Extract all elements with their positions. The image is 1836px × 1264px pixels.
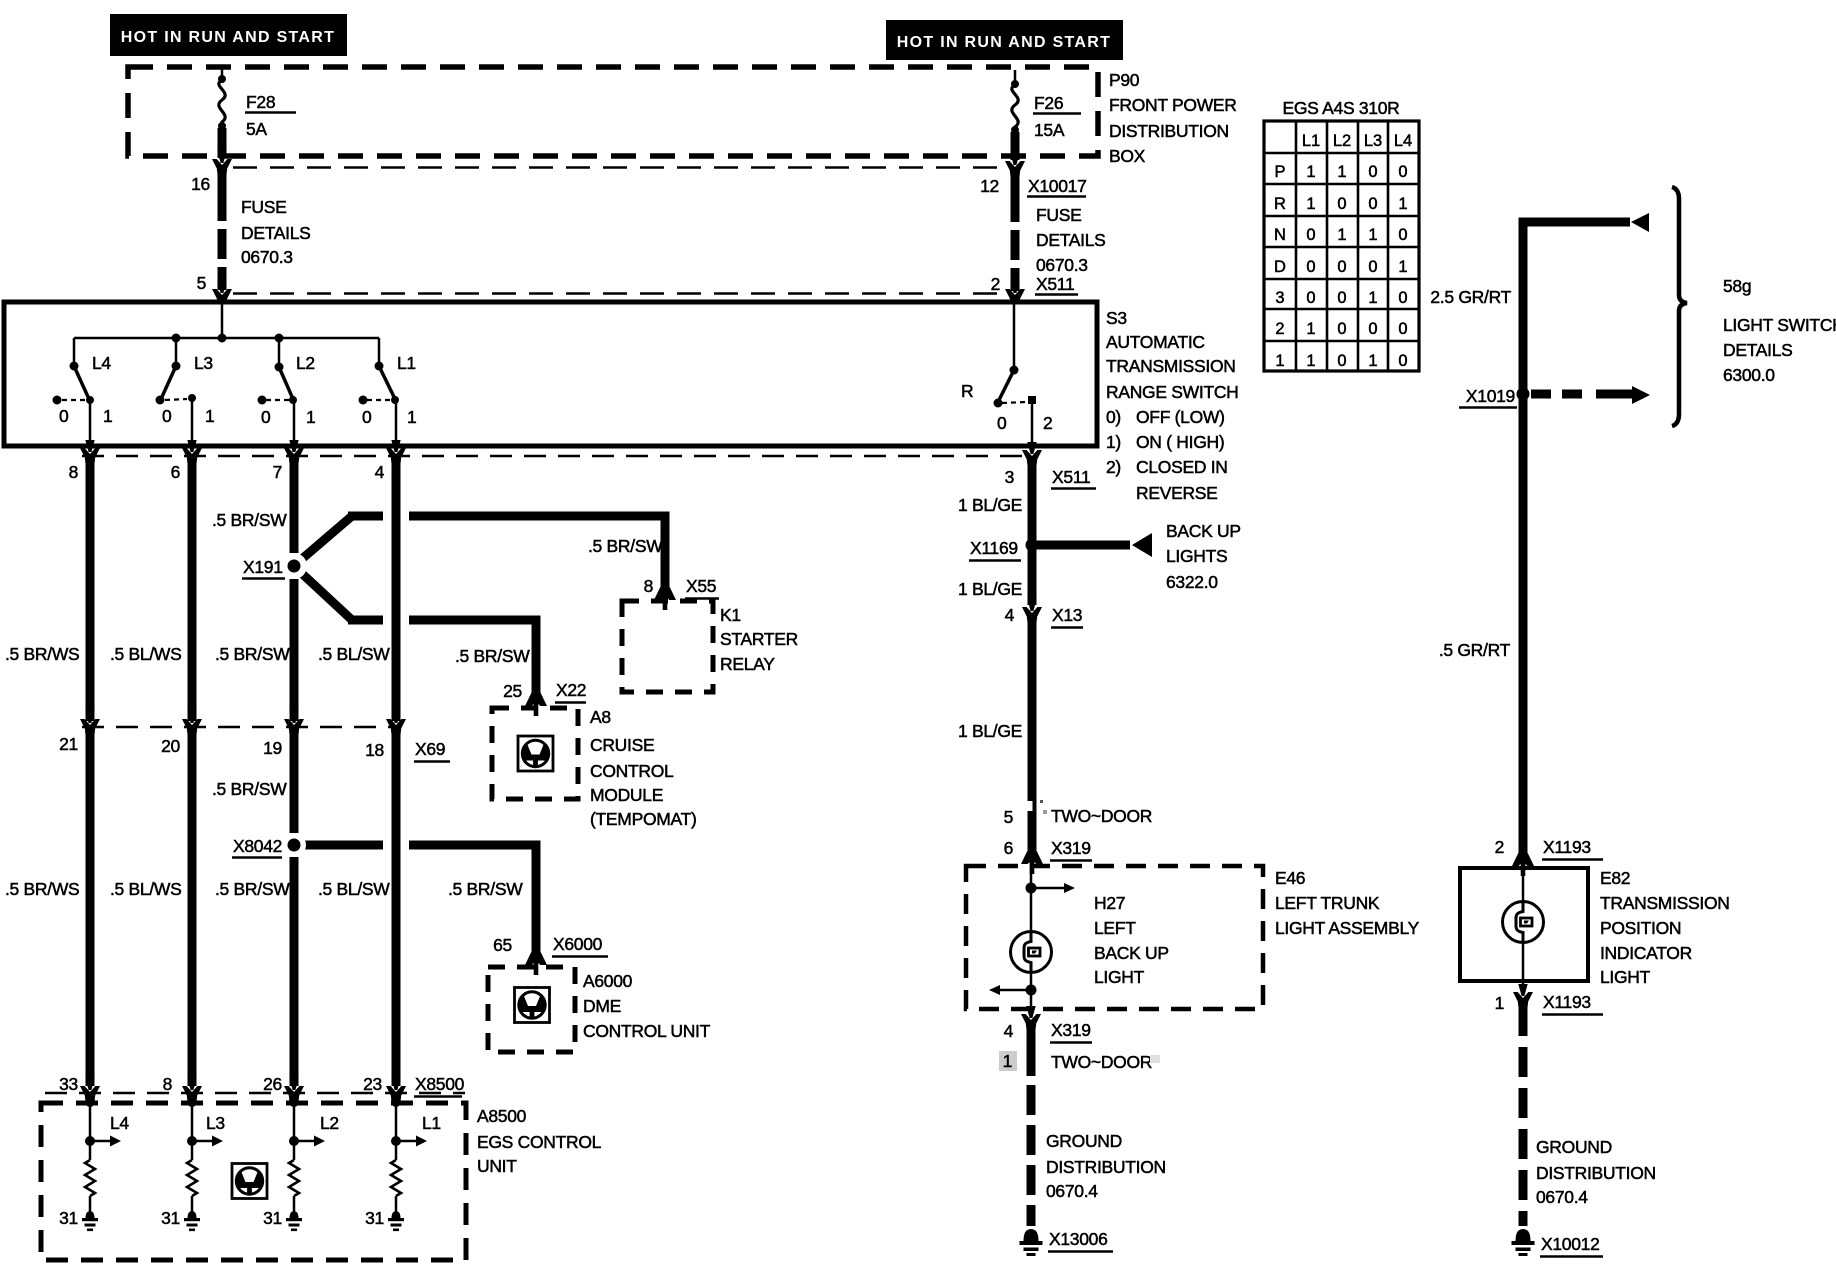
node X55: [685, 576, 719, 599]
fuse F26 15A: [1011, 70, 1019, 160]
svg-text:.5 BR/SW: .5 BR/SW: [455, 646, 530, 666]
table row 1: [1275, 352, 1407, 370]
svg-text:1 BL/GE: 1 BL/GE: [958, 495, 1022, 515]
bus wire inside S3: [74, 337, 379, 340]
svg-text:0670.3: 0670.3: [241, 247, 293, 267]
node label X8042: [232, 836, 282, 858]
svg-text:LIGHTS: LIGHTS: [1166, 546, 1227, 566]
svg-text:0): 0): [1106, 407, 1121, 427]
E46 labels: [1275, 868, 1420, 938]
svg-text:20: 20: [161, 736, 180, 756]
connector X13 pin 4: [1022, 599, 1042, 622]
svg-text:6: 6: [1004, 838, 1013, 858]
splice node X1169: [1026, 539, 1039, 552]
svg-text:0670.4: 0670.4: [1046, 1181, 1098, 1201]
connector X8500 pin 23: [386, 1078, 406, 1101]
svg-text:1: 1: [1398, 258, 1407, 276]
svg-text:0: 0: [1398, 352, 1407, 370]
wire branch X191 to X22 (lower): [296, 568, 536, 694]
svg-text:P: P: [1274, 163, 1285, 181]
svg-text:FUSE: FUSE: [241, 197, 286, 217]
P90 labels: [1109, 70, 1237, 166]
svg-text:.5 BR/SW: .5 BR/SW: [212, 779, 287, 799]
svg-text:58g: 58g: [1723, 276, 1751, 296]
connector X511 pin 4: [386, 440, 406, 463]
svg-text:F28: F28: [246, 92, 275, 112]
connector X8500 pin 33: [80, 1078, 100, 1101]
svg-text:15A: 15A: [1034, 120, 1065, 140]
svg-text:18: 18: [365, 740, 384, 760]
svg-text:DISTRIBUTION: DISTRIBUTION: [1109, 121, 1229, 141]
table row R: [1274, 195, 1408, 213]
svg-text:X319: X319: [1051, 1020, 1091, 1040]
svg-text:0: 0: [59, 406, 69, 426]
node label X13006: [1048, 1229, 1113, 1252]
svg-text:L4: L4: [92, 353, 111, 373]
svg-text:.5 BR/WS: .5 BR/WS: [5, 879, 79, 899]
F28 value label: [245, 92, 296, 139]
S3 automatic transmission range switch box: [4, 302, 1097, 446]
node label X1019: [1459, 386, 1517, 408]
svg-text:0: 0: [1337, 320, 1346, 338]
wire L4 output (.5 BR/WS) upper: [86, 461, 95, 721]
svg-text:1: 1: [1306, 352, 1315, 370]
L2 switch labels: [261, 353, 315, 427]
node X6000: [552, 934, 608, 957]
svg-text:8: 8: [69, 462, 78, 482]
wire X319 to ground (solid then dashed): [1027, 1028, 1036, 1226]
L3 switch labels: [162, 353, 214, 426]
node X319 (top): [1050, 838, 1092, 861]
svg-text:0: 0: [162, 406, 172, 426]
svg-text:L3: L3: [206, 1113, 225, 1133]
node X13: [1051, 605, 1083, 628]
svg-text:1: 1: [1398, 195, 1407, 213]
svg-text:P90: P90: [1109, 70, 1140, 90]
svg-text:FRONT POWER: FRONT POWER: [1109, 95, 1237, 115]
node label X1169: [969, 538, 1021, 561]
relay K1 box (dashed): [622, 601, 713, 692]
svg-text:0: 0: [1368, 320, 1377, 338]
svg-text:1: 1: [1337, 226, 1346, 244]
svg-text:RELAY: RELAY: [720, 654, 775, 674]
svg-text:X511: X511: [1052, 467, 1090, 487]
E82 labels: [1600, 868, 1730, 987]
switch L2: [258, 338, 298, 446]
svg-text:12: 12: [980, 176, 999, 196]
svg-text:X55: X55: [686, 576, 716, 596]
connector X69 pin 21: [80, 711, 100, 734]
svg-text:POSITION: POSITION: [1600, 918, 1681, 938]
connector X69 pin 18: [386, 711, 406, 734]
svg-text:L2: L2: [1333, 132, 1351, 150]
A8 labels: [590, 707, 697, 829]
svg-text:AUTOMATIC: AUTOMATIC: [1106, 332, 1205, 352]
connector X8500 pin 8: [182, 1078, 202, 1101]
F26 value label: [1033, 93, 1081, 140]
svg-text:4: 4: [1005, 605, 1015, 625]
wire branch X8042 to X6000: [300, 845, 536, 953]
wire (thick dashed) fuse F26 to S3: [1011, 174, 1020, 291]
svg-text:L1: L1: [397, 353, 416, 373]
svg-text:DISTRIBUTION: DISTRIBUTION: [1536, 1163, 1656, 1183]
svg-text:CONTROL UNIT: CONTROL UNIT: [583, 1021, 711, 1041]
splice node X8042: [282, 833, 306, 857]
junction dots on bus: [172, 334, 284, 343]
connector X55 pin 8: [654, 587, 676, 610]
svg-text:HOT IN RUN AND START: HOT IN RUN AND START: [121, 29, 335, 46]
svg-text:1): 1): [1106, 432, 1121, 452]
svg-text:31: 31: [263, 1208, 282, 1228]
wire feed into S3: [221, 302, 224, 338]
svg-text:1: 1: [407, 407, 416, 427]
svg-text:X511: X511: [1036, 274, 1074, 294]
svg-text:2: 2: [1495, 837, 1504, 857]
brace bracket light switch details: [1672, 187, 1687, 426]
svg-text:23: 23: [363, 1074, 382, 1094]
wire branch X191 to X55 (upper): [296, 516, 665, 588]
svg-text:1: 1: [1337, 163, 1346, 181]
svg-text:0: 0: [1306, 226, 1315, 244]
svg-text:1: 1: [1306, 163, 1315, 181]
svg-text:UNIT: UNIT: [477, 1156, 517, 1176]
svg-text:19: 19: [263, 738, 282, 758]
light switch details note: [1723, 276, 1836, 385]
svg-text:1: 1: [1368, 289, 1377, 307]
svg-text:X8042: X8042: [233, 836, 282, 856]
connector X319 pin 6: [1021, 851, 1043, 874]
L4 switch labels: [59, 353, 112, 426]
H27 labels: [1094, 893, 1169, 987]
svg-text:TRANSMISSION: TRANSMISSION: [1600, 893, 1730, 913]
svg-text:6: 6: [171, 462, 180, 482]
junction with right arrow: [1026, 883, 1076, 894]
svg-text:STARTER: STARTER: [720, 629, 798, 649]
switch R: [994, 302, 1037, 446]
svg-text:4: 4: [1004, 1021, 1014, 1041]
svg-text:MODULE: MODULE: [590, 785, 663, 805]
svg-text:X1193: X1193: [1543, 837, 1591, 857]
svg-text:.5 BR/SW: .5 BR/SW: [448, 879, 523, 899]
svg-text:X10017: X10017: [1028, 176, 1087, 196]
pin label 1 and TWO~DOOR note (faded): [999, 1051, 1160, 1072]
svg-text:.5 BL/WS: .5 BL/WS: [110, 879, 182, 899]
svg-text:R: R: [961, 381, 973, 401]
A8 steering icon: [518, 736, 553, 771]
node X8500: [414, 1074, 465, 1097]
svg-text:HOT IN RUN AND START: HOT IN RUN AND START: [897, 34, 1111, 51]
connector X69 pin 19: [284, 711, 304, 734]
connector X8500 pin 26: [284, 1078, 304, 1101]
svg-text:.5 BL/SW: .5 BL/SW: [318, 644, 390, 664]
svg-text:0: 0: [1306, 258, 1315, 276]
svg-text:LEFT TRUNK: LEFT TRUNK: [1275, 893, 1380, 913]
svg-text:GROUND: GROUND: [1046, 1131, 1122, 1151]
svg-text:X13006: X13006: [1049, 1229, 1108, 1249]
connector line X69 (dashed): [82, 726, 400, 729]
EGS control unit A8500 box (dashed): [41, 1103, 466, 1260]
svg-text:EGS CONTROL: EGS CONTROL: [477, 1132, 602, 1152]
svg-text:2: 2: [1043, 413, 1052, 433]
table row 2: [1275, 320, 1407, 338]
wire R output (1 BL/GE): [1028, 463, 1037, 605]
svg-text:1: 1: [306, 407, 315, 427]
svg-text:L3: L3: [1364, 132, 1382, 150]
table header L1 L2 L3 L4: [1302, 132, 1412, 150]
svg-text:X319: X319: [1051, 838, 1091, 858]
K1 labels: [720, 605, 798, 674]
svg-text:1: 1: [1306, 320, 1315, 338]
wire below bulb: [1030, 972, 1033, 1010]
connector X22 pin 25: [525, 693, 547, 716]
svg-text:1: 1: [1368, 226, 1377, 244]
svg-text:31: 31: [161, 1208, 180, 1228]
svg-text:0670.3: 0670.3: [1036, 255, 1088, 275]
fuse F28 5A: [218, 67, 226, 158]
svg-text:OFF (LOW): OFF (LOW): [1136, 407, 1225, 427]
junction dots below X8500: [85, 1097, 401, 1107]
switch L1: [359, 338, 400, 446]
svg-text:LIGHT ASSEMBLY: LIGHT ASSEMBLY: [1275, 918, 1420, 938]
ground X10012: [1512, 1229, 1535, 1256]
svg-text:2): 2): [1106, 457, 1121, 477]
switch L3: [156, 338, 197, 446]
svg-text:L3: L3: [194, 353, 213, 373]
cruise control module A8 box (dashed): [492, 708, 578, 799]
svg-text:.5 BR/SW: .5 BR/SW: [212, 510, 287, 530]
svg-text:.5 BR/SW: .5 BR/SW: [215, 879, 290, 899]
svg-text:TWO~DOOR: TWO~DOOR: [1051, 1052, 1152, 1072]
wire through E82: [1522, 869, 1525, 989]
connector X511 pin 6: [182, 440, 202, 463]
svg-text:REVERSE: REVERSE: [1136, 483, 1218, 503]
svg-text:0: 0: [1368, 195, 1377, 213]
svg-text:0: 0: [362, 407, 372, 427]
node X22: [555, 680, 586, 703]
svg-text:BACK UP: BACK UP: [1166, 521, 1241, 541]
connector line X8500 (dashed): [45, 1092, 465, 1095]
dashed wire from X1019 with right arrow: [1531, 386, 1650, 404]
svg-text:L2: L2: [320, 1113, 339, 1133]
svg-text:8: 8: [644, 576, 653, 596]
svg-text:0: 0: [1337, 258, 1346, 276]
table row N: [1274, 226, 1408, 244]
A8500 labels: [477, 1106, 602, 1176]
svg-text:3: 3: [1275, 289, 1284, 307]
svg-text:0: 0: [1398, 163, 1407, 181]
svg-text:25: 25: [503, 681, 522, 701]
svg-text:26: 26: [263, 1074, 282, 1094]
EGS steering icon: [232, 1164, 267, 1199]
EGS channel L3: wire, resistor, ground 31: [184, 1103, 223, 1231]
svg-text:R: R: [1274, 195, 1286, 213]
wire L2 output (.5 BR/SW) upper: [290, 461, 299, 721]
E46 left trunk light assembly box (dashed): [966, 866, 1263, 1009]
svg-text:TRANSMISSION: TRANSMISSION: [1106, 356, 1236, 376]
svg-text:DISTRIBUTION: DISTRIBUTION: [1046, 1157, 1166, 1177]
wire L3 output (.5 BL/WS) upper: [188, 461, 197, 721]
table row D: [1274, 258, 1408, 276]
svg-text:CLOSED IN: CLOSED IN: [1136, 457, 1228, 477]
pin label 5 and TWO~DOOR note: [1004, 806, 1153, 827]
svg-text:N: N: [1274, 226, 1286, 244]
svg-text:1: 1: [1368, 352, 1377, 370]
table row P: [1274, 163, 1407, 181]
svg-text:A6000: A6000: [583, 971, 633, 991]
svg-text:ON ( HIGH): ON ( HIGH): [1136, 432, 1224, 452]
svg-text:2: 2: [991, 274, 1000, 294]
fuse details note (right): [1036, 205, 1106, 275]
connector X319 pin 4: [1021, 1006, 1041, 1029]
connector X10017 pin 12: [1005, 153, 1025, 176]
svg-text:1: 1: [1495, 993, 1504, 1013]
svg-text:.5 BR/WS: .5 BR/WS: [5, 644, 79, 664]
arrow to light switch (left-pointing): [1631, 213, 1649, 232]
svg-text:65: 65: [493, 935, 512, 955]
svg-text:GROUND: GROUND: [1536, 1137, 1612, 1157]
A6000 steering icon: [515, 988, 550, 1023]
svg-text:5A: 5A: [246, 119, 267, 139]
connector X511 pin 5: [212, 281, 232, 304]
svg-text:LIGHT SWITCH: LIGHT SWITCH: [1723, 315, 1836, 335]
svg-text:FUSE: FUSE: [1036, 205, 1081, 225]
svg-text:X6000: X6000: [553, 934, 603, 954]
wire L3 output lower (.5 BL/WS): [188, 733, 197, 1086]
node X319 (bottom): [1050, 1020, 1092, 1043]
svg-text:33: 33: [59, 1074, 78, 1094]
svg-text:1 BL/GE: 1 BL/GE: [958, 721, 1022, 741]
svg-text:0: 0: [1306, 289, 1315, 307]
svg-text:1 BL/GE: 1 BL/GE: [958, 579, 1022, 599]
svg-text:5: 5: [1004, 807, 1013, 827]
DME control unit A6000 box (dashed): [488, 967, 575, 1052]
node X511 (top): [1035, 274, 1078, 295]
svg-text:BACK UP: BACK UP: [1094, 943, 1169, 963]
svg-text:3: 3: [1005, 467, 1014, 487]
svg-text:E82: E82: [1600, 868, 1630, 888]
L1 switch labels: [362, 353, 416, 427]
node X1193 (top): [1542, 837, 1603, 860]
ground distribution note (left): [1046, 1131, 1166, 1201]
connector X1193 pin 2 (bell): [1512, 853, 1534, 876]
bulb H27 left back up light: [1011, 932, 1052, 973]
svg-text:CONTROL: CONTROL: [590, 761, 674, 781]
svg-text:21: 21: [59, 734, 78, 754]
connector X511 pin 2: [1005, 281, 1025, 304]
svg-text:1: 1: [1003, 1051, 1012, 1071]
svg-text:0: 0: [997, 413, 1007, 433]
svg-text:L4: L4: [1394, 132, 1412, 150]
node X69: [414, 739, 450, 762]
node label X10012: [1540, 1234, 1603, 1257]
svg-text:X8500: X8500: [415, 1074, 465, 1094]
splice node X1019: [1517, 388, 1530, 401]
svg-text:DETAILS: DETAILS: [241, 223, 311, 243]
svg-text:0: 0: [1337, 195, 1346, 213]
svg-text:1: 1: [1275, 352, 1284, 370]
svg-text:4: 4: [375, 462, 385, 482]
wire 2.5 GR/RT (light switch feed): [1523, 222, 1630, 394]
svg-text:.5 GR/RT: .5 GR/RT: [1439, 640, 1511, 660]
svg-text:0: 0: [1398, 320, 1407, 338]
svg-text:.5 BL/SW: .5 BL/SW: [318, 879, 390, 899]
wire L4 output lower (.5 BR/WS): [86, 733, 95, 1086]
back up lights note: [1166, 521, 1241, 592]
svg-text:DETAILS: DETAILS: [1036, 230, 1106, 250]
svg-text:BOX: BOX: [1109, 146, 1146, 166]
node X1193 (bottom): [1542, 992, 1603, 1015]
connector line X511 (below S3, dashed): [82, 455, 1028, 458]
svg-text:0: 0: [1398, 226, 1407, 244]
bulb E82 indicator light: [1503, 902, 1544, 943]
wire to ground (dashed): [1519, 1006, 1528, 1226]
svg-text:0: 0: [261, 407, 271, 427]
svg-text:L4: L4: [110, 1113, 129, 1133]
wire (thick dashed) fuse F28 to S3: [218, 172, 227, 290]
svg-text:16: 16: [191, 174, 210, 194]
svg-text:D: D: [1274, 258, 1286, 276]
wire .5 GR/RT down to E82: [1519, 394, 1528, 854]
svg-text:0: 0: [1337, 289, 1346, 307]
svg-text:.5 BR/SW: .5 BR/SW: [215, 644, 290, 664]
svg-text:H27: H27: [1094, 893, 1125, 913]
svg-text:E46: E46: [1275, 868, 1305, 888]
svg-text:1: 1: [103, 406, 112, 426]
svg-text:F26: F26: [1034, 93, 1063, 113]
svg-text:X13: X13: [1052, 605, 1082, 625]
svg-text:X69: X69: [415, 739, 445, 759]
svg-text:LIGHT: LIGHT: [1094, 967, 1145, 987]
node label X191: [242, 557, 285, 579]
svg-text:L2: L2: [296, 353, 315, 373]
svg-text:31: 31: [365, 1208, 384, 1228]
svg-text:X1169: X1169: [970, 538, 1018, 558]
svg-text:X1019: X1019: [1466, 386, 1515, 406]
ground distribution note (right): [1536, 1137, 1656, 1207]
wire X13 to X319 (1 BL/GE): [1028, 621, 1037, 852]
EGS channel L1: wire, resistor, ground 31: [388, 1103, 427, 1231]
svg-text:X22: X22: [556, 680, 586, 700]
svg-text:8: 8: [163, 1074, 172, 1094]
svg-text:A8500: A8500: [477, 1106, 527, 1126]
connector X511 pin 8: [80, 440, 100, 463]
connector X6000 pin 65: [525, 952, 547, 975]
two-door splice mark: [1028, 800, 1048, 814]
connector X511 pin 3: [1022, 442, 1042, 465]
connector X511 pin 7: [284, 440, 304, 463]
svg-text:6300.0: 6300.0: [1723, 365, 1775, 385]
fuse details dashed box (thin): [233, 168, 1004, 294]
svg-text:DME: DME: [583, 996, 621, 1016]
junction with left arrow: [989, 985, 1037, 996]
splice node X191: [281, 553, 307, 579]
connector X69 pin 20: [182, 711, 202, 734]
svg-text:INDICATOR: INDICATOR: [1600, 943, 1692, 963]
svg-text:.5 BR/SW: .5 BR/SW: [588, 536, 663, 556]
title box: HOT IN RUN AND START (left): [110, 14, 347, 56]
connector X10017/X511 pin 16: [212, 151, 232, 174]
svg-text:LEFT: LEFT: [1094, 918, 1136, 938]
svg-text:X10012: X10012: [1541, 1234, 1600, 1254]
connector X1193 pin 1: [1513, 984, 1533, 1007]
svg-text:EGS A4S 310R: EGS A4S 310R: [1282, 98, 1399, 118]
svg-text:6322.0: 6322.0: [1166, 572, 1218, 592]
wire L2 output lower (.5 BR/SW): [290, 733, 299, 1086]
svg-text:7: 7: [273, 462, 282, 482]
svg-text:RANGE SWITCH: RANGE SWITCH: [1106, 382, 1239, 402]
svg-text:L1: L1: [1302, 132, 1320, 150]
node X511 (bottom): [1051, 467, 1096, 489]
